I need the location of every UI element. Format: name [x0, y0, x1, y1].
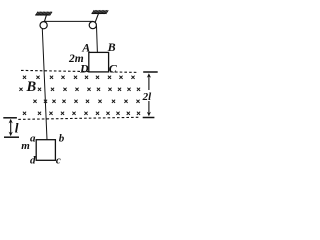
- dimension 2l arrow shaft upper: [148, 75, 150, 91]
- svg-text:C: C: [109, 62, 118, 76]
- dimension 2l bottom tick: [143, 117, 155, 119]
- field boundary top dashed line: [21, 70, 139, 72]
- dimension 2l down arrowhead: [147, 112, 151, 117]
- dimension 2l arrow shaft lower: [148, 101, 150, 115]
- ceiling mount bar left: [35, 14, 49, 16]
- dimension l bottom tick: [4, 136, 19, 138]
- field boundary bottom dashed line: [18, 117, 138, 119]
- string between pulleys: [43, 20, 93, 22]
- svg-text:b: b: [59, 133, 65, 145]
- pulley left: [40, 22, 47, 29]
- left string down to loop abcd: [42, 29, 47, 140]
- field crosses row 2: [19, 88, 140, 91]
- loop ABCD (upper square, mass 2m): [89, 52, 109, 72]
- svg-text:D: D: [79, 62, 89, 76]
- svg-text:B: B: [26, 79, 37, 95]
- ceiling mount hatching left: [36, 12, 52, 16]
- svg-text:c: c: [56, 155, 61, 167]
- pulley link left: [44, 15, 46, 22]
- loop abcd (lower square, mass m): [36, 140, 55, 161]
- dimension 2l top tick: [143, 71, 158, 73]
- svg-text:l: l: [15, 120, 19, 135]
- svg-text:a: a: [30, 133, 36, 145]
- svg-text:B: B: [107, 40, 116, 54]
- dimension l arrow shaft: [10, 121, 12, 135]
- field crosses row 1: [23, 76, 135, 79]
- ceiling mount hatching right: [92, 10, 108, 14]
- dimension l top tick: [3, 117, 17, 119]
- svg-text:d: d: [30, 155, 36, 167]
- field crosses row 4: [23, 112, 140, 115]
- pulley right: [89, 22, 96, 29]
- field crosses row 3: [33, 100, 139, 103]
- pulley link right: [95, 14, 98, 22]
- dimension l down arrowhead: [9, 132, 13, 137]
- ceiling mount bar right: [92, 12, 106, 14]
- svg-text:2l: 2l: [142, 91, 153, 103]
- right string down to loop ABCD: [96, 26, 99, 53]
- dimension l up arrowhead: [9, 119, 13, 124]
- svg-text:m: m: [21, 140, 30, 152]
- dimension 2l up arrowhead: [147, 73, 151, 78]
